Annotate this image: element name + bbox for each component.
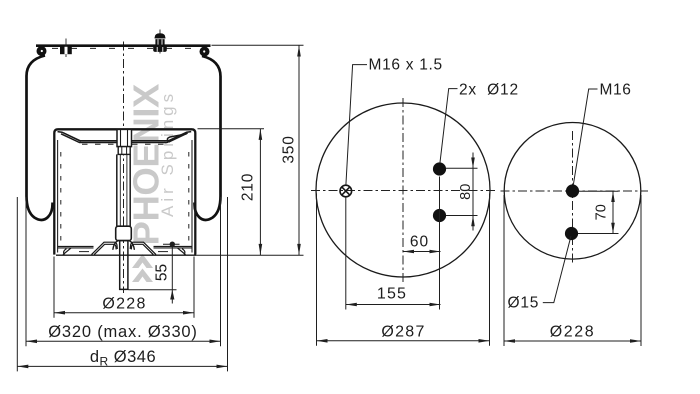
dimension 155 xyxy=(346,197,441,309)
top plate xyxy=(36,44,211,47)
bottom closure plate xyxy=(56,254,196,256)
bottom plate pair lines xyxy=(58,246,192,248)
bolt holes 2x diameter 12 xyxy=(433,162,446,175)
bellows outline left xyxy=(27,56,53,220)
svg-text:Ø228: Ø228 xyxy=(550,323,596,340)
air fitting bolt (top, right of center) xyxy=(153,30,167,54)
svg-text:55: 55 xyxy=(154,264,171,281)
dimension 60 xyxy=(403,250,441,254)
piston outline xyxy=(54,129,195,254)
dimension dR diameter 346 xyxy=(17,197,227,371)
dimension 350 xyxy=(297,45,301,255)
bellows outline right xyxy=(195,56,221,220)
leader 2x diameter 12 xyxy=(440,89,458,163)
piston wall hidden dashes xyxy=(60,152,62,244)
svg-text:Ø320 (max. Ø330): Ø320 (max. Ø330) xyxy=(48,323,197,341)
middle view: circle xyxy=(316,103,490,277)
dimension diameter 287 xyxy=(317,194,490,346)
svg-text:155: 155 xyxy=(377,286,407,303)
bottom hem curls xyxy=(63,248,186,255)
dim extension: piston top level xyxy=(198,128,265,130)
svg-text:70: 70 xyxy=(594,204,610,220)
svg-text:Ø15: Ø15 xyxy=(508,295,540,312)
bolt column line xyxy=(439,177,441,310)
rod socket flare xyxy=(113,241,135,250)
dimension 210 xyxy=(259,129,263,255)
dimension 55 xyxy=(129,242,180,304)
middle view centerline horizontal xyxy=(311,190,495,192)
svg-text:Ø287: Ø287 xyxy=(381,323,425,340)
svg-text:M16 x 1.5: M16 x 1.5 xyxy=(369,57,443,74)
piston top dish xyxy=(58,132,192,143)
center stud M16 xyxy=(566,184,579,197)
dim extension: top plate level xyxy=(212,44,304,46)
dimension diameter 228 (right view) xyxy=(504,195,641,346)
dish hidden dashes xyxy=(82,143,116,145)
center rod upper tube xyxy=(117,154,130,226)
left view: centerline xyxy=(123,42,125,294)
bolt head / nut under boss xyxy=(118,147,130,155)
svg-text:2x Ø12: 2x Ø12 xyxy=(459,82,519,99)
svg-text:Air Springs: Air Springs xyxy=(158,90,177,217)
watermark PHOENIX logo xyxy=(126,83,178,282)
right view centerline horizontal xyxy=(501,190,649,192)
lower stud diameter 15 xyxy=(565,227,578,240)
leader M16 x 1.5 xyxy=(346,65,367,185)
blind nut fitting (left, on plate) xyxy=(60,39,72,58)
dimension diameter 228 (left view) xyxy=(54,257,194,318)
left bead xyxy=(37,46,47,56)
svg-text:80: 80 xyxy=(458,184,474,200)
svg-text:350: 350 xyxy=(281,135,298,163)
dimension 70 xyxy=(578,191,619,233)
rod sleeve xyxy=(116,226,132,240)
piston inner wall lines xyxy=(57,140,59,253)
bottom hidden dashes xyxy=(79,251,89,253)
air inlet M16x1.5 (cross-marked circle) xyxy=(340,185,352,197)
dimension 80 xyxy=(446,153,478,231)
svg-text:210: 210 xyxy=(240,173,257,201)
hidden line under top plate xyxy=(52,47,198,49)
middle view centerline vertical xyxy=(402,98,404,283)
svg-text:60: 60 xyxy=(410,234,429,251)
dim extension: piston bottom level xyxy=(196,254,304,256)
dimension diameter 320 (max 330) xyxy=(26,197,221,346)
svg-text:Ø228: Ø228 xyxy=(102,296,146,313)
right view: circle xyxy=(504,123,641,260)
bent bracket on bottom plate xyxy=(92,242,157,254)
right view centerline vertical xyxy=(572,131,574,265)
lower rod xyxy=(120,241,128,290)
central boss on piston top xyxy=(117,129,132,146)
svg-text:M16: M16 xyxy=(600,82,632,99)
leader diameter 15 xyxy=(543,236,571,303)
leader M16 xyxy=(573,89,597,184)
right bead xyxy=(200,47,210,57)
